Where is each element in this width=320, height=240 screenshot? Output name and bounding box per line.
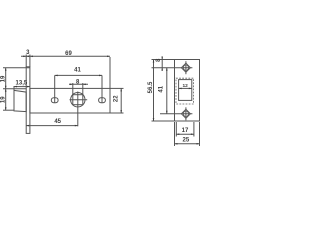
dim 17 lines xyxy=(176,133,194,135)
centerline spindle vertical xyxy=(77,92,79,127)
centerline right oval xyxy=(101,75,103,103)
right oval hole xyxy=(99,98,106,103)
faceplate side view xyxy=(26,67,30,134)
svg-text:45: 45 xyxy=(54,119,61,125)
spindle square hole xyxy=(73,95,83,105)
arrows dim 25 xyxy=(175,143,178,145)
ext plate bottom left xyxy=(152,120,175,122)
dim 41 right line xyxy=(166,68,168,114)
ext cutout left down xyxy=(175,122,177,137)
arrows dim 41 xyxy=(55,75,58,77)
arrows dim 8 right outside xyxy=(161,57,163,60)
dim 22 line xyxy=(120,88,122,113)
spindle circle xyxy=(71,93,85,107)
latchbolt rect front xyxy=(179,80,192,101)
dim 8 right line xyxy=(161,58,163,71)
ext plate right down xyxy=(199,122,201,146)
arrows dim 45 xyxy=(26,125,29,127)
bottom screw crosshair horizontal xyxy=(160,113,192,115)
arrows dim 56.5 xyxy=(153,60,155,63)
ext cutout right down xyxy=(193,122,195,137)
dim 45 line xyxy=(26,125,78,127)
ext line case right up xyxy=(109,57,111,88)
ext line faceplate top left xyxy=(3,67,30,69)
dim 25 line xyxy=(175,143,200,145)
arrows dim 12 xyxy=(179,88,182,90)
latch case body xyxy=(30,88,110,113)
dashed cutout xyxy=(176,78,194,104)
ext line bolt tip up xyxy=(13,86,15,91)
dim 41 line xyxy=(55,74,102,76)
ext line case bottom right xyxy=(110,112,124,114)
arrows dim 69 xyxy=(26,56,29,58)
ext plate top left xyxy=(152,59,175,61)
dim 8 line xyxy=(69,83,88,85)
bottom screw crosshair vertical xyxy=(185,107,187,120)
svg-text:41: 41 xyxy=(158,85,164,92)
dim 13.5 line xyxy=(14,86,30,88)
ext line square left xyxy=(72,83,74,95)
ext line faceplate right up xyxy=(29,55,31,67)
top screw hole xyxy=(183,65,188,70)
svg-text:56.5: 56.5 xyxy=(148,81,154,93)
bottom screw hole xyxy=(183,111,188,116)
arrows dim 41 right xyxy=(166,68,168,71)
dim 19 lower line xyxy=(5,89,7,111)
centerline left oval xyxy=(54,75,56,103)
arrows dim 22 xyxy=(120,88,122,91)
svg-text:19: 19 xyxy=(0,75,6,82)
top screw crosshair horizontal xyxy=(152,67,193,69)
ext line case top left xyxy=(3,88,26,90)
svg-text:13,5: 13,5 xyxy=(16,80,28,86)
ext plate left down xyxy=(174,122,176,146)
svg-text:25: 25 xyxy=(183,138,190,144)
dim 56.5 line xyxy=(153,60,155,122)
latch bolt xyxy=(14,90,26,111)
ext line square right xyxy=(82,83,84,95)
svg-text:69: 69 xyxy=(65,51,72,57)
svg-text:19: 19 xyxy=(0,96,6,103)
arrows dim 8 outside xyxy=(70,84,73,86)
dim 19 upper line xyxy=(5,68,7,89)
ext line faceplate left up xyxy=(25,55,27,67)
svg-text:17: 17 xyxy=(182,128,189,134)
arrows dim 19 upper xyxy=(5,68,7,71)
arrows dim 17 xyxy=(176,133,179,135)
svg-text:12: 12 xyxy=(183,83,189,89)
left oval hole xyxy=(51,98,58,103)
top screw crosshair vertical xyxy=(185,61,187,74)
dim 12 line xyxy=(179,87,192,89)
arrows dim 3 outside xyxy=(23,56,26,58)
top screw countersink diamond xyxy=(181,63,190,72)
centerline spindle horizontal xyxy=(70,99,88,101)
ext line bolt bottom left xyxy=(3,109,14,111)
svg-text:41: 41 xyxy=(74,67,81,73)
dim line 3 and 69 xyxy=(21,55,110,57)
svg-text:22: 22 xyxy=(113,95,119,102)
arrows dim 13.5 xyxy=(14,86,17,88)
bottom screw countersink diamond xyxy=(181,109,190,118)
arrows dim 19 lower xyxy=(5,89,7,92)
ext line case top right xyxy=(110,87,124,89)
strike plate front view xyxy=(175,60,200,122)
